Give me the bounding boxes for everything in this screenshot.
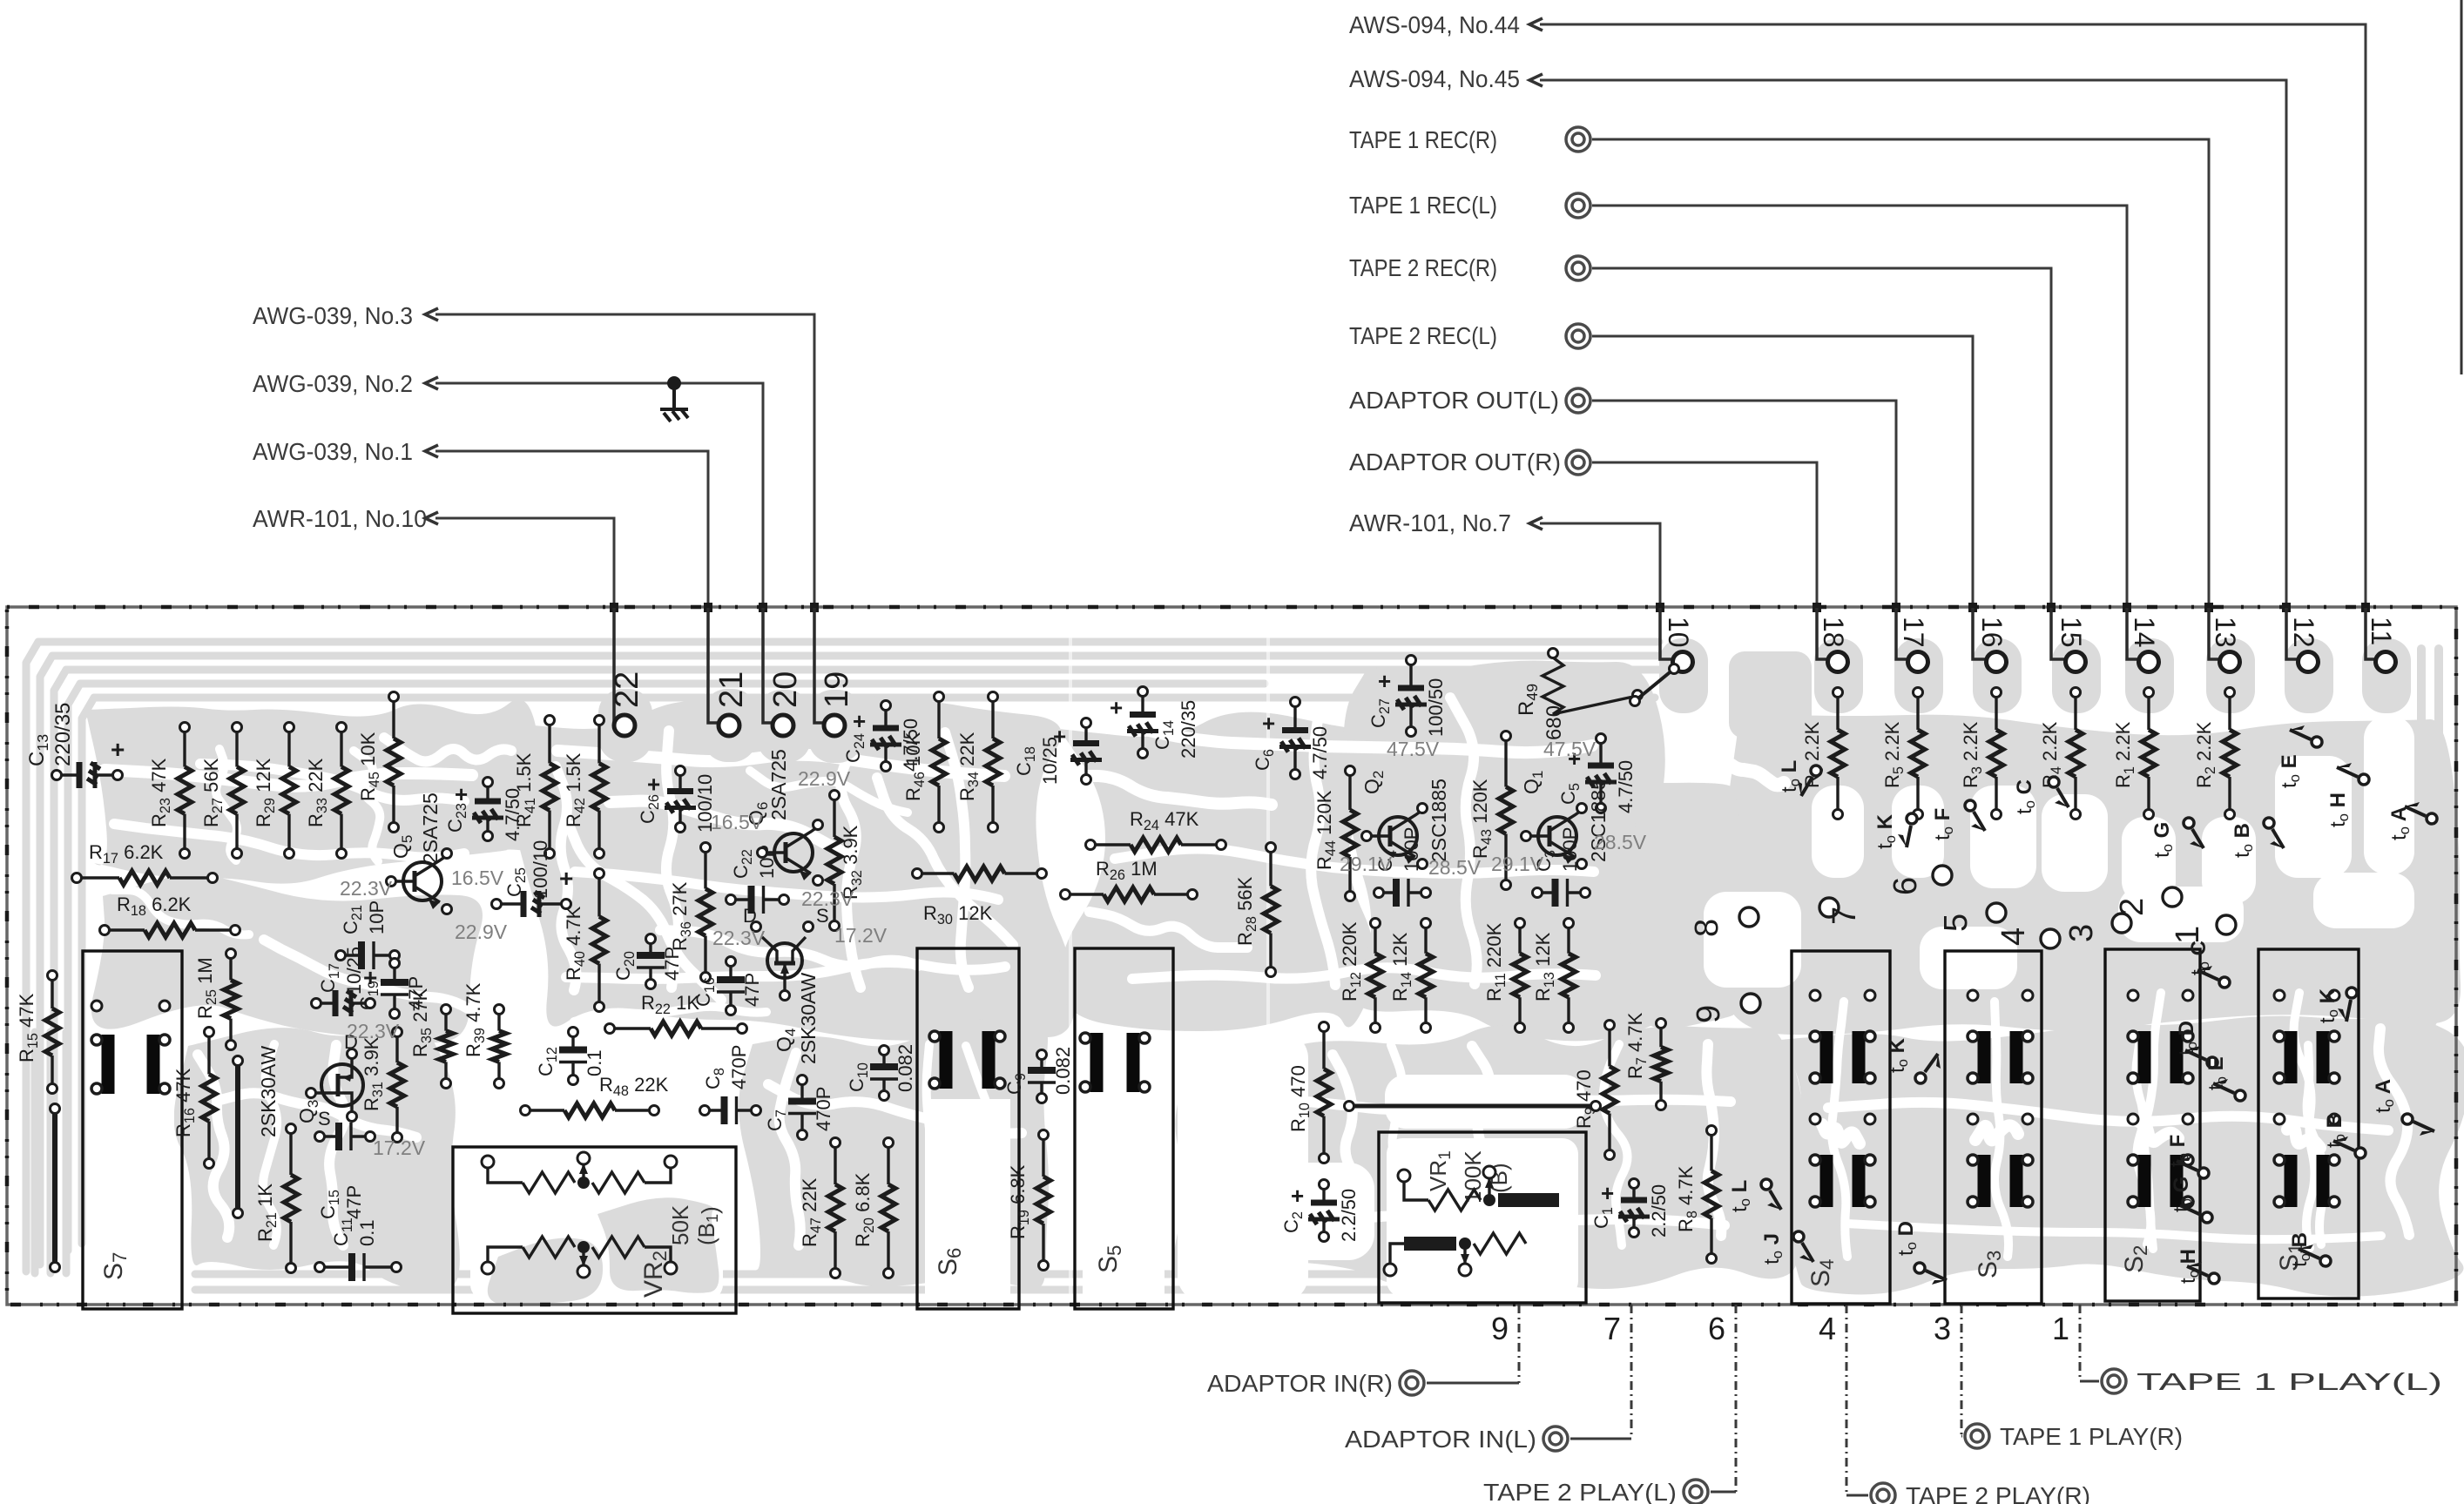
- svg-text:D: D: [743, 905, 757, 927]
- svg-text:R36 27K: R36 27K: [669, 881, 694, 951]
- node to D: [1894, 1221, 1947, 1285]
- svg-text:R18 6.2K: R18 6.2K: [117, 894, 192, 919]
- node to L: [1778, 760, 1821, 796]
- switch S2 (box): [2105, 949, 2200, 1301]
- node to H: [2326, 763, 2369, 827]
- svg-text:22.3V: 22.3V: [712, 927, 766, 949]
- transistor Q6 2SA725: [745, 749, 823, 885]
- transistor Q2 2SC1885: [1360, 771, 1450, 869]
- svg-text:29.1V: 29.1V: [1340, 853, 1393, 875]
- switch S2 contacts: [2128, 990, 2193, 1207]
- svg-text:47.5V: 47.5V: [1387, 738, 1440, 760]
- svg-text:R20 6.8K: R20 6.8K: [852, 1172, 877, 1247]
- resistor R36 27K: [669, 843, 712, 982]
- capacitor C17 10/25 (electrolytic): [312, 964, 378, 1016]
- svg-text:(B1): (B1): [693, 1206, 723, 1245]
- node to K: [1873, 813, 1917, 849]
- resistor R22 1K: [605, 992, 747, 1035]
- resistor R3 2.2K: [1960, 688, 2003, 819]
- node to B: [2231, 818, 2284, 858]
- wire (copper trace pattern): [26, 638, 2464, 1305]
- svg-text:47P: 47P: [741, 973, 763, 1007]
- resistor R40 4.7K: [563, 869, 606, 1012]
- svg-text:+: +: [559, 865, 573, 892]
- resistor R31 3.9K: [361, 1028, 404, 1143]
- svg-text:50K: 50K: [667, 1204, 693, 1245]
- node to C: [2187, 941, 2230, 988]
- transistor Q3 2SK30AW (FET): [257, 1031, 363, 1137]
- switch S7 (box): [83, 951, 182, 1309]
- svg-text:+: +: [647, 772, 660, 798]
- node to B: [2323, 1113, 2366, 1158]
- svg-text:to G: to G: [2150, 822, 2176, 858]
- resistor R42 1.5K: [563, 716, 606, 859]
- svg-text:+: +: [363, 964, 377, 991]
- node 5 (terminal): [1938, 903, 2006, 932]
- transistor Q4 2SK30AW (FET): [743, 905, 829, 1064]
- svg-text:16.5V: 16.5V: [711, 811, 764, 833]
- node 13 (board pin): [2209, 608, 2241, 672]
- resistor R15 47K: [16, 971, 59, 1094]
- node TAPE 2 REC(R) (callout): [1349, 254, 2051, 651]
- capacitor C20 47P: [612, 934, 683, 989]
- node 18 (board pin): [1817, 608, 1849, 672]
- wire (page fold seams): [1069, 0, 1072, 1504]
- wire (pin10 stub): [1630, 664, 1679, 706]
- node to G: [2150, 818, 2204, 858]
- capacitor C11 0.1: [315, 1217, 402, 1281]
- capacitor C16 47P: [692, 957, 763, 1015]
- svg-text:17.2V: 17.2V: [373, 1136, 426, 1159]
- switch S6 contacts: [929, 1031, 1005, 1089]
- resistor R25 1M: [194, 949, 238, 1050]
- svg-text:+: +: [853, 708, 866, 734]
- svg-text:R5 2.2K: R5 2.2K: [1881, 721, 1907, 788]
- node 8 (terminal): [1689, 907, 1759, 937]
- svg-text:R16 47K: R16 47K: [172, 1068, 198, 1137]
- svg-text:470P: 470P: [728, 1045, 750, 1089]
- resistor R6 2.2K: [1801, 688, 1845, 819]
- svg-text:29.1V: 29.1V: [1491, 853, 1544, 875]
- svg-text:R31 3.9K: R31 3.9K: [361, 1036, 386, 1111]
- svg-text:7: 7: [1603, 1311, 1621, 1346]
- svg-text:AWS-094, No.45: AWS-094, No.45: [1349, 65, 1520, 92]
- node 19 (board pin): [814, 608, 855, 736]
- resistor R1 2.2K: [2112, 688, 2156, 819]
- svg-text:AWS-094, No.44: AWS-094, No.44: [1349, 11, 1520, 38]
- node TAPE 1 REC(R) (callout): [1349, 126, 2209, 651]
- node 2 (terminal): [2114, 887, 2182, 916]
- resistor R7 4.7K: [1624, 1012, 1668, 1109]
- svg-text:10: 10: [1663, 617, 1694, 648]
- svg-text:11: 11: [2366, 617, 2397, 645]
- resistor R26 1M: [1061, 858, 1198, 901]
- capacitor C24 4.7/50 (electrolytic): [842, 701, 921, 772]
- transistor Q5 2SA725: [387, 792, 452, 914]
- svg-text:47P: 47P: [661, 947, 683, 981]
- svg-text:28.5V: 28.5V: [1428, 856, 1482, 879]
- node 17 (board pin): [1896, 608, 1929, 672]
- node to L: [1728, 1179, 1781, 1212]
- svg-text:2.2/50: 2.2/50: [1338, 1189, 1360, 1242]
- svg-text:R23 47K: R23 47K: [148, 758, 173, 827]
- svg-text:220/35: 220/35: [1178, 700, 1199, 759]
- resistor R19 6.8K: [1007, 1130, 1050, 1271]
- node 7 (terminal): [1819, 898, 1863, 925]
- svg-text:2: 2: [2114, 898, 2150, 916]
- capacitor C8 470P: [700, 1045, 761, 1124]
- node AWG-039, No.1 (callout): [253, 438, 708, 721]
- potentiometer VR2 (box): [453, 1147, 736, 1313]
- node to D: [2175, 1021, 2218, 1068]
- node AWG-039, No.2 (callout): [253, 370, 763, 721]
- svg-text:R47 22K: R47 22K: [799, 1177, 824, 1247]
- capacitor C23 4.7/50 (electrolytic): [444, 778, 523, 842]
- svg-text:TAPE 2 REC(R): TAPE 2 REC(R): [1349, 254, 1497, 281]
- svg-text:15: 15: [2056, 617, 2087, 648]
- svg-text:0.082: 0.082: [1052, 1047, 1074, 1095]
- svg-text:R19 6.8K: R19 6.8K: [1007, 1164, 1032, 1239]
- svg-text:R28 56K: R28 56K: [1234, 876, 1259, 946]
- resistor R39 4.7K: [462, 982, 506, 1088]
- resistor R49 680: [1515, 649, 1643, 741]
- wire (S7 area): [51, 1104, 60, 1272]
- svg-text:to L: to L: [1778, 760, 1803, 792]
- resistor R32 3.9K: [827, 791, 865, 931]
- node AWR-101, No.10 (callout): [253, 505, 614, 721]
- svg-text:R34 22K: R34 22K: [956, 732, 982, 801]
- capacitor C19 47P: [356, 959, 427, 1019]
- node 9 (bottom pin): [1207, 1305, 1519, 1397]
- switch S5 (box): [1075, 948, 1173, 1309]
- svg-text:TAPE 1 REC(R): TAPE 1 REC(R): [1349, 126, 1497, 153]
- svg-text:1: 1: [2052, 1311, 2069, 1346]
- capacitor C6 4.7/50 (electrolytic): [1252, 698, 1331, 780]
- resistor R9 470: [1573, 1021, 1617, 1160]
- capacitor C13 220/35 (electrolytic): [52, 736, 125, 788]
- svg-text:ADAPTOR OUT(R): ADAPTOR OUT(R): [1349, 449, 1561, 475]
- svg-text:6: 6: [1708, 1311, 1725, 1346]
- wire (page edge artifact): [2461, 0, 2463, 374]
- svg-text:R17 6.2K: R17 6.2K: [89, 841, 164, 867]
- svg-text:14: 14: [2129, 617, 2160, 648]
- node ADAPTOR OUT(L) (callout): [1349, 387, 1896, 651]
- capacitor C14 220/35 (electrolytic): [1110, 687, 1199, 759]
- svg-text:22.3V: 22.3V: [340, 877, 393, 900]
- node TAPE 1 REC(L) (callout): [1349, 192, 2127, 651]
- resistor R47 22K: [799, 1138, 842, 1278]
- node 4 (bottom pin): [1819, 1305, 2090, 1504]
- svg-text:to C: to C: [2013, 779, 2038, 814]
- svg-text:0.1: 0.1: [356, 1219, 378, 1246]
- svg-text:AWR-101, No.10: AWR-101, No.10: [253, 505, 427, 532]
- svg-text:28.5V: 28.5V: [1594, 831, 1647, 853]
- svg-text:13: 13: [2210, 617, 2241, 648]
- svg-text:to K: to K: [1873, 813, 1899, 849]
- svg-text:R44 120K: R44 120K: [1313, 790, 1339, 870]
- svg-text:to K: to K: [2316, 988, 2341, 1023]
- node 21 (board pin): [708, 608, 750, 736]
- potentiometer VR2 element A: [482, 1152, 677, 1193]
- svg-text:4: 4: [1995, 927, 2032, 946]
- resistor R48 22K: [521, 1074, 669, 1117]
- node to C: [2013, 777, 2069, 814]
- svg-text:TAPE 2 REC(L): TAPE 2 REC(L): [1349, 322, 1497, 349]
- svg-text:R33 22K: R33 22K: [305, 758, 330, 827]
- switch S4 contacts: [1810, 990, 1875, 1207]
- svg-text:to A: to A: [2387, 806, 2413, 840]
- svg-text:+: +: [1291, 1183, 1304, 1209]
- resistor R27 56K: [200, 723, 244, 859]
- svg-text:10/25: 10/25: [343, 947, 365, 995]
- svg-text:19: 19: [819, 671, 855, 708]
- node to K: [1886, 1037, 1941, 1083]
- potentiometer VR2 element B: [482, 1237, 677, 1278]
- switch S7 contacts: [91, 1001, 170, 1094]
- svg-text:R42 1.5K: R42 1.5K: [563, 752, 588, 827]
- resistor R18 6.2K: [100, 894, 240, 937]
- node 20 (board pin): [763, 608, 804, 736]
- wire (R16 area): [233, 1056, 243, 1218]
- resistor R46 10K: [902, 692, 946, 833]
- svg-text:R11 220K: R11 220K: [1483, 922, 1509, 1002]
- potentiometer VR1 element B: [1384, 1233, 1526, 1276]
- switch S1 (box): [2258, 949, 2359, 1298]
- node 1 (bottom pin): [2052, 1305, 2442, 1395]
- svg-text:TAPE 1 PLAY(R): TAPE 1 PLAY(R): [2000, 1423, 2183, 1450]
- capacitor C9 0.082: [1003, 1047, 1074, 1103]
- node to G: [2170, 1177, 2212, 1223]
- node AWS-094, No.44 (callout): [1349, 11, 2366, 651]
- resistor R23 47K: [148, 723, 192, 859]
- svg-text:100/10: 100/10: [530, 840, 551, 899]
- svg-text:R45 10K: R45 10K: [357, 732, 382, 801]
- svg-text:17: 17: [1898, 617, 1929, 648]
- svg-text:2.2/50: 2.2/50: [1648, 1184, 1670, 1238]
- transistor Q1 2SC1885: [1520, 771, 1610, 869]
- svg-text:AWG-039, No.2: AWG-039, No.2: [253, 370, 413, 397]
- node 6 (bottom pin): [1483, 1305, 1736, 1504]
- svg-text:R22 1K: R22 1K: [641, 992, 699, 1017]
- svg-text:R3 2.2K: R3 2.2K: [1960, 721, 1985, 788]
- svg-text:0.082: 0.082: [894, 1044, 916, 1092]
- node 7 (bottom pin): [1345, 1305, 1631, 1453]
- svg-text:TAPE 1 PLAY(L): TAPE 1 PLAY(L): [2137, 1368, 2442, 1395]
- svg-text:22: 22: [609, 671, 645, 708]
- svg-text:R40 4.7K: R40 4.7K: [563, 906, 588, 981]
- capacitor C3 100P: [1533, 827, 1590, 907]
- svg-text:to E: to E: [2278, 754, 2303, 788]
- resistor R35 27K: [409, 988, 453, 1088]
- node AWR-101, No.7 (callout): [1349, 509, 1660, 651]
- node 3 (terminal): [2063, 914, 2131, 942]
- node AWG-039, No.3 (callout): [253, 302, 814, 721]
- node ADAPTOR OUT(R) (callout): [1349, 449, 1817, 651]
- svg-text:2SK30AW: 2SK30AW: [797, 972, 820, 1064]
- capacitor C10 0.082: [846, 1044, 916, 1101]
- svg-text:7: 7: [1826, 907, 1863, 925]
- svg-text:470P: 470P: [813, 1087, 834, 1131]
- resistor R12 220K: [1339, 919, 1382, 1033]
- svg-text:+: +: [1378, 668, 1391, 694]
- svg-text:R24 47K: R24 47K: [1130, 808, 1199, 833]
- svg-text:4.7/50: 4.7/50: [1615, 760, 1637, 813]
- svg-text:4.7/50: 4.7/50: [502, 788, 523, 841]
- node voltage annotations: [340, 738, 1647, 1159]
- svg-text:ADAPTOR IN(R): ADAPTOR IN(R): [1207, 1370, 1393, 1397]
- svg-text:+: +: [1110, 695, 1123, 721]
- potentiometer VR1 element A: [1398, 1166, 1559, 1211]
- svg-text:2SK30AW: 2SK30AW: [257, 1045, 280, 1137]
- svg-text:TAPE 1 REC(L): TAPE 1 REC(L): [1349, 192, 1497, 219]
- node 4 (terminal): [1995, 927, 2060, 948]
- svg-text:R30 12K: R30 12K: [923, 902, 993, 927]
- svg-text:R15 47K: R15 47K: [16, 993, 41, 1062]
- svg-text:AWG-039, No.1: AWG-039, No.1: [253, 438, 413, 465]
- node 1 (terminal): [2170, 915, 2236, 944]
- resistor R4 2.2K: [2039, 688, 2083, 819]
- svg-text:22.9V: 22.9V: [455, 921, 508, 943]
- capacitor C2 2.2/50 (electrolytic): [1280, 1180, 1360, 1243]
- svg-text:4.7/50: 4.7/50: [900, 718, 921, 772]
- resistor R8 4.7K: [1675, 1126, 1718, 1264]
- svg-text:2SC1885: 2SC1885: [1428, 779, 1450, 862]
- resistor R43 120K: [1469, 732, 1513, 890]
- node to J: [1760, 1231, 1813, 1265]
- svg-text:R7 4.7K: R7 4.7K: [1624, 1012, 1650, 1079]
- svg-text:AWG-039, No.3: AWG-039, No.3: [253, 302, 413, 329]
- resistor R34 22K: [956, 692, 1000, 833]
- capacitor C27 100/50 (electrolytic): [1367, 656, 1447, 738]
- svg-text:R14 12K: R14 12K: [1389, 932, 1414, 1002]
- svg-text:to A: to A: [2372, 1079, 2397, 1113]
- switch S3 contacts: [1968, 990, 2033, 1207]
- svg-text:R1 2.2K: R1 2.2K: [2112, 721, 2137, 788]
- svg-text:R25 1M: R25 1M: [194, 957, 219, 1019]
- node to K: [2316, 988, 2357, 1023]
- svg-text:to J: to J: [1760, 1233, 1786, 1265]
- svg-text:22.9V: 22.9V: [798, 767, 851, 790]
- resistor R30 12K: [913, 867, 1047, 927]
- node 9 (terminal): [1691, 994, 1760, 1023]
- switch S1 contacts: [2274, 990, 2339, 1207]
- capacitor C4 100P: [1374, 827, 1431, 907]
- svg-text:to D: to D: [1894, 1221, 1920, 1256]
- resistor R41 1.5K: [513, 716, 557, 859]
- svg-text:to H: to H: [2326, 792, 2352, 827]
- resistor R21 1K: [254, 1124, 298, 1273]
- svg-text:S: S: [318, 1108, 331, 1130]
- switch S5 contacts: [1080, 1033, 1150, 1092]
- svg-text:22.3V: 22.3V: [801, 887, 854, 910]
- svg-text:3: 3: [2063, 924, 2100, 942]
- resistor R29 12K: [253, 723, 296, 859]
- node TAPE 2 REC(L) (callout): [1349, 322, 1973, 651]
- capacitor C21 10P: [336, 900, 400, 969]
- node to H: [2177, 1249, 2219, 1284]
- resistor R44 120K: [1313, 766, 1357, 901]
- svg-text:to F: to F: [1931, 808, 1956, 840]
- svg-text:21: 21: [713, 671, 750, 708]
- svg-text:12: 12: [2288, 617, 2319, 648]
- node (edge crossings): [610, 603, 2370, 612]
- capacitor C18 10/25 (electrolytic): [1013, 718, 1102, 786]
- svg-text:2SA725: 2SA725: [419, 792, 442, 864]
- svg-text:R21 1K: R21 1K: [254, 1184, 280, 1242]
- resistor R17 6.2K: [72, 841, 218, 885]
- resistor R45 10K: [357, 692, 401, 833]
- svg-text:R27 56K: R27 56K: [200, 758, 226, 827]
- svg-text:5: 5: [1938, 914, 1975, 932]
- capacitor C5 4.7/50 (electrolytic): [1557, 734, 1637, 814]
- svg-text:16: 16: [1976, 617, 2008, 648]
- svg-text:4: 4: [1819, 1311, 1836, 1346]
- node 12 (board pin): [2286, 608, 2319, 672]
- svg-text:2SA725: 2SA725: [767, 749, 790, 820]
- svg-text:to L: to L: [1728, 1180, 1753, 1212]
- node 15 (board pin): [2051, 608, 2087, 672]
- svg-text:R39 4.7K: R39 4.7K: [462, 982, 488, 1057]
- capacitor C12 0.1: [535, 1028, 605, 1085]
- node to F: [1931, 800, 1985, 840]
- svg-text:10P: 10P: [366, 900, 388, 934]
- node AWS-094, No.45 (callout): [1349, 65, 2286, 651]
- wire (R10-R9): [1345, 1102, 1601, 1111]
- svg-text:R10 470: R10 470: [1287, 1065, 1313, 1132]
- svg-text:9: 9: [1491, 1311, 1509, 1346]
- node 10 (board pin): [1660, 608, 1694, 672]
- svg-text:R9 470: R9 470: [1573, 1069, 1598, 1129]
- resistor R28 56K: [1234, 843, 1278, 977]
- svg-text:TAPE 2 PLAY(R): TAPE 2 PLAY(R): [1906, 1482, 2090, 1504]
- svg-text:47P: 47P: [405, 976, 427, 1010]
- switch S4 (box): [1792, 951, 1890, 1304]
- svg-text:100/50: 100/50: [1425, 678, 1447, 737]
- svg-text:+: +: [111, 736, 125, 763]
- svg-text:20: 20: [767, 671, 804, 708]
- svg-text:ADAPTOR IN(L): ADAPTOR IN(L): [1345, 1426, 1536, 1453]
- capacitor C22 10P: [726, 845, 789, 914]
- resistor R11 220K: [1483, 919, 1527, 1033]
- capacitor C1 2.2/50 (electrolytic): [1590, 1179, 1670, 1238]
- svg-text:R13 12K: R13 12K: [1532, 932, 1557, 1002]
- ground: [660, 376, 688, 422]
- capacitor C26 100/10 (electrolytic): [637, 766, 716, 833]
- node to E: [2278, 725, 2322, 788]
- svg-text:R48 22K: R48 22K: [599, 1074, 669, 1099]
- node to B: [2288, 1232, 2331, 1267]
- capacitor C7 470P: [764, 1076, 834, 1140]
- svg-text:9: 9: [1691, 1005, 1727, 1023]
- node to E: [2204, 1056, 2245, 1101]
- node 16 (board pin): [1973, 608, 2008, 672]
- svg-text:R2 2.2K: R2 2.2K: [2193, 721, 2218, 788]
- resistor R33 22K: [305, 723, 348, 859]
- svg-text:6: 6: [1887, 877, 1924, 895]
- resistor R24 47K: [1086, 808, 1226, 852]
- svg-text:+: +: [1601, 1180, 1614, 1206]
- node 6 (terminal): [1887, 866, 1952, 895]
- svg-text:R43 120K: R43 120K: [1469, 779, 1495, 859]
- svg-text:to K: to K: [1886, 1037, 1911, 1073]
- svg-text:16.5V: 16.5V: [451, 867, 504, 889]
- resistor R10 470: [1287, 1022, 1331, 1163]
- node 3 (bottom pin): [1934, 1305, 2183, 1450]
- resistor R13 12K: [1532, 919, 1576, 1033]
- svg-text:18: 18: [1818, 617, 1849, 648]
- svg-text:10/25: 10/25: [1039, 737, 1061, 785]
- switch S3 (box): [1945, 951, 2042, 1304]
